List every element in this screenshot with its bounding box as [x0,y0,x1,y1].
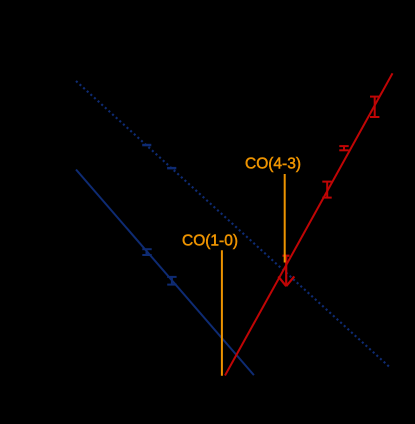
orange CO(4-3) annotation line [284,174,286,263]
svg-text:CO(4-3): CO(4-3) [245,156,301,173]
red model line [225,73,393,375]
svg-text:CO(1-0): CO(1-0) [182,233,238,250]
red error bar B (middle) [339,146,348,150]
blue error bar 2 [167,277,176,285]
orange CO(1-0) annotation line [221,250,223,375]
red upper-limit down arrow [278,256,294,287]
dotted-line error bar marker 1 [142,144,151,147]
blue solid model line [76,170,254,376]
red error bar C (top) [370,97,379,117]
blue error bar 1 [142,249,151,255]
dotted-line error bar marker 2 [167,167,176,170]
blue dotted model line [76,81,391,368]
red error bar A (bottom) [322,182,331,198]
